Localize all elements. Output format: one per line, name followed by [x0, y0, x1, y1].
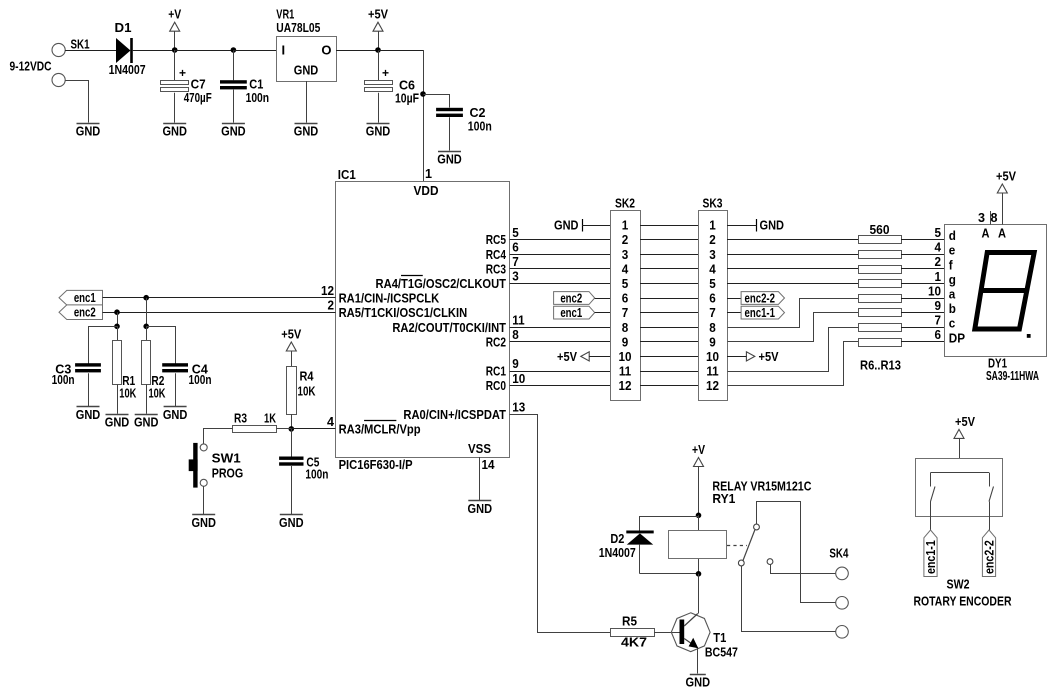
- relay common contact: [754, 524, 760, 530]
- power node +5V (main): [368, 7, 388, 53]
- IC pin 10 RC0 wire to SK2: [486, 371, 610, 393]
- resistor R5 4K7: [611, 613, 655, 649]
- SW2 phase A switch: [931, 473, 936, 530]
- svg-text:b: b: [949, 301, 956, 316]
- net tag enc2-2 at SW2: [981, 530, 996, 577]
- svg-text:g: g: [949, 272, 956, 287]
- svg-text:RC1: RC1: [486, 364, 506, 379]
- wire VDD vertical: [423, 50, 425, 181]
- svg-text:a: a: [949, 287, 956, 302]
- wire R3 to SW1: [204, 429, 233, 444]
- IC pin 5 RC5 wire to SK2: [486, 225, 610, 247]
- ground tag at SK2 pin 1: [554, 218, 610, 233]
- svg-text:5: 5: [512, 225, 519, 240]
- svg-text:D2: D2: [610, 531, 624, 546]
- svg-text:11: 11: [512, 312, 524, 327]
- regulator VR1 UA78L05: [276, 7, 336, 82]
- wire NC contact to SK4 bottom: [742, 566, 836, 632]
- net tag enc1 (left): [59, 290, 103, 305]
- wire SK1-1 to D1 anode: [65, 50, 116, 52]
- svg-text:enc2: enc2: [74, 305, 96, 320]
- svg-text:1: 1: [622, 218, 629, 233]
- svg-text:RA5/T1CKI/OSC1/CLKIN: RA5/T1CKI/OSC1/CLKIN: [339, 305, 468, 320]
- svg-text:+: +: [382, 66, 389, 80]
- svg-text:R6..R13: R6..R13: [860, 358, 901, 373]
- junction MCLR node: [289, 426, 295, 432]
- junction relay bottom: [696, 571, 702, 577]
- svg-text:1N4007: 1N4007: [109, 62, 146, 77]
- svg-text:+5V: +5V: [281, 327, 301, 342]
- svg-text:A: A: [998, 225, 1007, 240]
- svg-text:I: I: [282, 43, 286, 58]
- wire R13 to DY1 pin 6: [901, 327, 945, 342]
- IC pin 6 RC4 wire to SK2: [486, 239, 610, 261]
- wire R10 to DY1 pin 10: [901, 283, 945, 298]
- display DY1 SA39-11HWA body: [945, 225, 1047, 383]
- svg-text:2: 2: [327, 297, 334, 312]
- wire SW1 to GND: [203, 486, 205, 514]
- connector SK1 pin 1 (9-12VDC +): [52, 37, 90, 57]
- junction enc2/R1 branch: [114, 309, 120, 315]
- svg-text:10: 10: [512, 371, 525, 386]
- svg-text:RC0: RC0: [486, 378, 506, 393]
- resistors R6..R13 560 ohm: [859, 222, 902, 373]
- wire enc2 to IC pin 2: [103, 312, 336, 314]
- svg-text:GND: GND: [162, 124, 187, 139]
- svg-text:VSS: VSS: [468, 441, 491, 456]
- switch SW1 PROG: [189, 443, 244, 488]
- svg-text:470µF: 470µF: [184, 90, 212, 105]
- svg-text:7: 7: [709, 305, 716, 320]
- net tag enc2 at SK2 pin 6: [554, 290, 610, 305]
- svg-text:7: 7: [934, 313, 941, 328]
- svg-text:GND: GND: [191, 515, 216, 530]
- IC pin 13 RA0/CIN+/ICSPDAT wire: [403, 400, 610, 633]
- svg-text:enc1: enc1: [74, 290, 96, 305]
- svg-text:enc1: enc1: [560, 305, 582, 320]
- svg-text:enc1-1: enc1-1: [923, 540, 938, 574]
- wire R11 to DY1 pin 9: [901, 298, 945, 313]
- svg-text:1: 1: [934, 269, 941, 284]
- svg-text:100n: 100n: [246, 90, 270, 105]
- svg-text:T1: T1: [713, 630, 726, 645]
- svg-text:+5V: +5V: [996, 169, 1016, 184]
- svg-text:10K: 10K: [149, 386, 166, 401]
- svg-text:R3: R3: [234, 410, 247, 425]
- svg-text:100n: 100n: [189, 372, 212, 387]
- ground at C6: [366, 124, 391, 139]
- svg-text:7: 7: [622, 305, 629, 320]
- relay actuation dashed link: [727, 545, 747, 547]
- ground at SK1: [76, 124, 101, 139]
- svg-text:12: 12: [321, 283, 334, 298]
- wire NO contact to SK4 top: [771, 565, 836, 574]
- IC pin 12 RA1/CIN-/ICSPCLK label: [321, 283, 440, 305]
- svg-text:11: 11: [619, 364, 631, 379]
- svg-text:3: 3: [512, 269, 519, 284]
- svg-text:GND: GND: [554, 218, 579, 233]
- svg-text:4: 4: [327, 414, 335, 429]
- net tag enc2-2 at SK3 pin 6: [727, 290, 785, 305]
- ground at T1: [686, 674, 711, 689]
- svg-text:1: 1: [709, 218, 716, 233]
- ground at VR1: [294, 124, 319, 139]
- svg-text:+V: +V: [168, 7, 181, 22]
- svg-text:10: 10: [618, 349, 631, 364]
- wire SK3 row 2 to resistor R6: [727, 239, 858, 241]
- svg-text:SK3: SK3: [703, 196, 723, 211]
- ground at C4: [163, 407, 188, 422]
- svg-text:GND: GND: [437, 152, 462, 167]
- net tag enc1-1 at SW2: [923, 530, 938, 577]
- svg-text:RA2/COUT/T0CKI/INT: RA2/COUT/T0CKI/INT: [392, 320, 506, 335]
- svg-text:10K: 10K: [298, 384, 316, 399]
- connector SK4 pin 2: [836, 597, 849, 610]
- wire to C4: [147, 327, 176, 364]
- svg-text:GND: GND: [163, 407, 188, 422]
- wire R3 to IC pin 4: [291, 428, 335, 430]
- capacitor C4 100n: [162, 362, 211, 407]
- wire R12 to DY1 pin 7: [901, 313, 945, 328]
- svg-text:+V: +V: [692, 442, 705, 457]
- svg-text:4: 4: [934, 240, 941, 255]
- svg-text:5: 5: [709, 276, 716, 291]
- resistor R4 10K: [287, 367, 316, 429]
- wire to C3: [89, 327, 118, 364]
- ground at R1: [105, 415, 130, 430]
- svg-text:8: 8: [622, 320, 629, 335]
- pin number 14 (VSS): [482, 457, 496, 472]
- svg-text:GND: GND: [279, 515, 304, 530]
- capacitor C6 10uF: [365, 50, 420, 123]
- power node +V: [168, 7, 181, 53]
- svg-text:+: +: [179, 66, 186, 80]
- wire D1 cathode to node +V: [133, 50, 175, 52]
- svg-text:RC3: RC3: [486, 261, 506, 276]
- label SW2: [947, 577, 970, 592]
- svg-text:SK2: SK2: [615, 196, 635, 211]
- capacitor C3 100n: [52, 362, 101, 407]
- svg-text:2: 2: [934, 254, 941, 269]
- net tag enc2 (left): [59, 305, 103, 320]
- svg-text:GND: GND: [76, 407, 101, 422]
- wire common to SK4 middle: [757, 502, 836, 603]
- svg-text:enc2-2: enc2-2: [745, 290, 775, 305]
- resistor R2 10K: [142, 326, 166, 414]
- diode D2 1N4007: [599, 516, 654, 574]
- wire relay top to D2: [640, 516, 699, 518]
- svg-text:100n: 100n: [52, 372, 75, 387]
- svg-text:11: 11: [706, 364, 718, 379]
- IC pin 7 RC3 wire to SK2: [486, 254, 610, 276]
- wire D2 to relay bottom: [640, 573, 699, 575]
- svg-text:2: 2: [622, 232, 629, 247]
- power node +5V at SW2: [954, 414, 975, 473]
- wire +V rail to C1 node: [175, 50, 234, 52]
- svg-text:14: 14: [482, 457, 496, 472]
- ground at SW1: [191, 515, 216, 531]
- wire SK3 row 12 to resistor row 9: [728, 342, 859, 386]
- svg-text:SK4: SK4: [829, 546, 849, 561]
- ground at C2: [437, 152, 462, 167]
- wire C2 branch: [424, 95, 450, 108]
- svg-text:GND: GND: [686, 674, 711, 689]
- power node +5V at R4: [281, 327, 301, 367]
- wire SK3 row 8 to resistor row 6: [728, 299, 859, 328]
- svg-text:4: 4: [622, 261, 629, 276]
- svg-text:6: 6: [622, 291, 629, 306]
- diode D1 1N4007: [109, 20, 146, 77]
- svg-text:O: O: [321, 43, 331, 58]
- svg-text:SW1: SW1: [212, 451, 241, 466]
- IC pin 9 RC1 wire to SK2: [486, 356, 610, 378]
- svg-text:GND: GND: [760, 218, 785, 233]
- svg-text:RA0/CIN+/ICSPDAT: RA0/CIN+/ICSPDAT: [403, 407, 506, 422]
- svg-text:8: 8: [709, 320, 716, 335]
- svg-text:DP: DP: [949, 330, 966, 345]
- svg-text:4: 4: [709, 261, 716, 276]
- svg-text:enc1-1: enc1-1: [745, 305, 775, 320]
- svg-text:c: c: [949, 316, 956, 331]
- junction R1/C3 node: [114, 324, 120, 330]
- svg-text:GND: GND: [134, 415, 159, 430]
- junction C1/+V rail: [231, 47, 237, 53]
- svg-text:GND: GND: [366, 124, 391, 139]
- svg-text:1N4007: 1N4007: [599, 545, 636, 560]
- svg-text:12: 12: [618, 378, 631, 393]
- svg-text:12: 12: [706, 378, 719, 393]
- svg-text:RC2: RC2: [486, 334, 506, 349]
- relay moving arm: [743, 530, 755, 561]
- ground at R2: [134, 415, 159, 430]
- svg-text:e: e: [949, 243, 956, 258]
- ground at C7: [162, 124, 187, 139]
- connector SK4 pin 1: [836, 567, 849, 580]
- ground tag at SK3 pin 1: [727, 218, 784, 233]
- svg-text:VDD: VDD: [414, 183, 439, 198]
- capacitor C5 100n: [279, 429, 328, 514]
- svg-text:f: f: [949, 257, 953, 272]
- IC pin 8 RC2 wire to SK2: [486, 327, 610, 349]
- svg-text:RA4/T1G/OSC2/CLKOUT: RA4/T1G/OSC2/CLKOUT: [376, 276, 506, 291]
- svg-text:3: 3: [978, 210, 985, 225]
- label 9-12VDC: [10, 58, 52, 73]
- svg-text:RC4: RC4: [486, 247, 507, 262]
- svg-text:R4: R4: [300, 369, 315, 384]
- svg-text:PROG: PROG: [212, 465, 244, 480]
- label ROTARY ENCODER: [914, 594, 1012, 609]
- connector SK4 pin 3: [836, 626, 849, 639]
- junction relay top: [696, 513, 702, 519]
- svg-text:5: 5: [622, 276, 629, 291]
- svg-text:6: 6: [709, 291, 716, 306]
- wire R8 to DY1 pin 2: [901, 254, 945, 269]
- svg-text:13: 13: [512, 400, 525, 415]
- svg-text:RC5: RC5: [486, 232, 506, 247]
- svg-text:10: 10: [928, 283, 941, 298]
- wire enc2 branch down: [117, 312, 119, 326]
- svg-text:SW2: SW2: [947, 577, 970, 592]
- wires SK2 to SK3 rows 1-12: [640, 226, 698, 386]
- svg-text:UA78L05: UA78L05: [276, 20, 320, 35]
- capacitor C1 100n: [220, 50, 269, 123]
- DY1 pin 3 stub: [978, 210, 991, 225]
- transistor T1 BC547: [671, 613, 738, 660]
- svg-text:RA3/MCLR/Vpp: RA3/MCLR/Vpp: [339, 422, 421, 437]
- svg-text:IC1: IC1: [338, 167, 356, 182]
- connector SK1 pin 2 (0V): [52, 73, 65, 86]
- svg-text:10K: 10K: [119, 386, 136, 401]
- svg-text:8: 8: [512, 327, 519, 342]
- wire +5V node to VDD drop: [378, 50, 423, 52]
- svg-text:10: 10: [706, 349, 719, 364]
- resistor R1 10K: [113, 326, 137, 414]
- svg-text:GND: GND: [294, 63, 319, 78]
- svg-text:100n: 100n: [468, 119, 492, 134]
- IC pin 4 RA3/MCLR/Vpp label: [327, 414, 421, 437]
- power node +V at relay: [692, 442, 705, 515]
- wire enc1 to IC pin 12: [103, 297, 336, 299]
- svg-text:1: 1: [425, 166, 432, 181]
- svg-text:SK1: SK1: [71, 37, 90, 52]
- svg-text:560: 560: [870, 222, 890, 237]
- relay RY1 VR15M121C coil: [669, 478, 812, 558]
- power node +5V at DY1: [991, 169, 1017, 226]
- svg-text:2: 2: [709, 232, 716, 247]
- svg-text:6: 6: [934, 327, 941, 342]
- wire R5 to T1 base: [654, 632, 680, 634]
- relay NC contact: [738, 560, 744, 566]
- wire R9 to DY1 pin 1: [901, 269, 945, 284]
- wire relay coil bottom: [698, 559, 700, 574]
- svg-text:8: 8: [991, 210, 998, 225]
- wire SK3 row 4 to resistor R8: [727, 268, 858, 270]
- svg-text:ROTARY ENCODER: ROTARY ENCODER: [914, 594, 1012, 609]
- svg-text:GND: GND: [105, 415, 130, 430]
- decimal point DP: [1027, 334, 1031, 338]
- svg-text:100n: 100n: [305, 467, 328, 482]
- capacitor C2 100n: [436, 105, 492, 151]
- svg-text:+5V: +5V: [759, 349, 779, 364]
- wire R7 to DY1 pin 4: [901, 240, 945, 255]
- svg-text:9: 9: [512, 356, 519, 371]
- svg-text:3: 3: [622, 247, 629, 262]
- rotary encoder SW2 body: [916, 459, 1003, 517]
- svg-text:6: 6: [512, 239, 519, 254]
- IC pin 2 RA5/T1CKI/OSC1/CLKIN label: [327, 297, 467, 319]
- svg-text:9: 9: [709, 334, 716, 349]
- svg-text:GND: GND: [76, 124, 101, 139]
- wire SK3 row 5 to resistor R9: [727, 283, 858, 285]
- svg-text:10µF: 10µF: [395, 91, 419, 106]
- svg-text:D1: D1: [115, 20, 132, 35]
- wire R6 to DY1 pin 5: [901, 225, 945, 240]
- power arrow +5V at SK3 pin 10: [727, 349, 779, 364]
- wire relay bottom to T1 collector: [698, 574, 700, 614]
- wire SW2 common bar: [931, 472, 990, 474]
- junction C2 tap: [420, 91, 426, 97]
- ground at C1: [221, 124, 246, 139]
- junction enc1/R2 branch: [143, 295, 149, 301]
- IC pin 3 RA4/T1G/OSC2/CLKOUT wire to SK2: [376, 269, 610, 291]
- svg-text:3: 3: [709, 247, 716, 262]
- wire SK1-2 to GND: [66, 81, 89, 123]
- svg-text:+5V: +5V: [557, 349, 577, 364]
- svg-text:PIC16F630-I/P: PIC16F630-I/P: [339, 457, 413, 472]
- svg-text:SA39-11HWA: SA39-11HWA: [986, 368, 1039, 383]
- pin 14 wire (VSS): [479, 457, 481, 500]
- seven segment digit glyph: [975, 253, 1034, 330]
- IC pin 11 RA2/COUT/T0CKI/INT wire to SK2: [392, 312, 610, 334]
- ground at C3: [76, 407, 101, 422]
- junction R2/C4 node: [143, 324, 149, 330]
- svg-text:A: A: [982, 225, 991, 240]
- svg-text:enc2-2: enc2-2: [981, 540, 996, 574]
- connector SK2 body: [611, 196, 641, 401]
- svg-text:9-12VDC: 9-12VDC: [10, 58, 52, 73]
- SW2 phase B switch: [989, 473, 994, 530]
- wire C1 node to VR1 input: [233, 50, 276, 52]
- svg-text:d: d: [949, 228, 956, 243]
- net tag enc1 at SK2 pin 7: [554, 305, 610, 320]
- connector SK3 body: [699, 196, 728, 401]
- wire T1 emitter to GND: [697, 648, 699, 674]
- connector SK4 label: [829, 546, 849, 561]
- wire SK3 row 9 to resistor row 7: [728, 313, 859, 342]
- net tag enc1-1 at SK3 pin 7: [727, 305, 785, 320]
- svg-text:+5V: +5V: [955, 414, 975, 429]
- svg-text:5: 5: [934, 225, 941, 240]
- svg-text:R5: R5: [622, 613, 637, 628]
- wire SK3 row 3 to resistor R7: [727, 254, 858, 256]
- relay NO contact: [767, 559, 773, 565]
- svg-text:+5V: +5V: [368, 7, 388, 22]
- svg-text:9: 9: [622, 334, 629, 349]
- power arrow +5V at SK2 pin 10: [557, 349, 610, 364]
- svg-text:RA1/CIN-/ICSPCLK: RA1/CIN-/ICSPCLK: [339, 290, 440, 305]
- resistor R3 1K: [233, 410, 292, 432]
- wire enc1 branch down: [146, 298, 148, 327]
- pin number 1 (VDD): [425, 166, 432, 181]
- svg-text:RY1: RY1: [712, 491, 735, 506]
- IC U1 PIC16F630 body: [336, 167, 510, 472]
- wire SK3 row 11 to resistor row 8: [728, 328, 859, 372]
- ground at C5: [279, 515, 304, 531]
- svg-text:7: 7: [512, 254, 519, 269]
- wire VR1 GND pin to ground: [306, 81, 308, 123]
- svg-text:GND: GND: [221, 124, 246, 139]
- svg-text:1K: 1K: [264, 410, 276, 425]
- svg-text:GND: GND: [294, 124, 319, 139]
- ground at VSS: [468, 501, 493, 516]
- svg-text:4K7: 4K7: [621, 635, 647, 650]
- svg-text:BC547: BC547: [705, 644, 738, 659]
- capacitor C7 470uF: [161, 50, 212, 123]
- wire VR1 output to node +5V: [336, 50, 378, 52]
- svg-text:GND: GND: [468, 501, 493, 516]
- svg-text:9: 9: [934, 298, 941, 313]
- svg-text:enc2: enc2: [560, 290, 582, 305]
